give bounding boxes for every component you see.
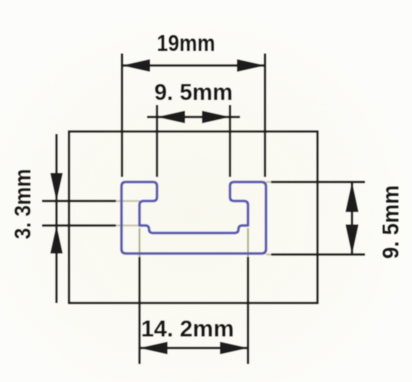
faint extension line continuation through wall (lower, y=225.5): [116, 225, 140, 227]
faint extension line continuation through base (right, x=248): [247, 228, 249, 257]
14.2mm cavity width dimension: left arrowhead: [140, 342, 168, 354]
9.5mm slot opening dimension: dimension line with tails: [147, 116, 240, 118]
9.5mm slot opening dimension: right extension line: [229, 105, 231, 177]
14.2mm cavity width dimension: right extension line: [247, 257, 249, 364]
3.3mm lip depth dimension: upper arrowhead (pointing down): [50, 173, 62, 201]
14.2mm cavity width dimension: left extension line: [138, 257, 140, 364]
svg-text:14. 2mm: 14. 2mm: [141, 315, 234, 341]
14.2mm cavity width dimension: right arrowhead: [220, 342, 248, 354]
9.5mm slot opening dimension: left arrowhead: [157, 111, 185, 123]
19mm width dimension: right arrowhead: [237, 59, 265, 71]
faint extension line continuation (top right, y=182): [266, 181, 271, 183]
19mm width dimension: left extension line: [121, 54, 123, 178]
9.5mm height dimension: top arrowhead (pointing up): [346, 182, 359, 212]
3.3mm lip depth dimension: dimension line: [55, 134, 57, 303]
9.5mm slot opening dimension: right arrowhead: [202, 111, 230, 123]
19mm width dimension: right extension line: [264, 54, 266, 178]
9.5mm height dimension: bottom arrowhead (pointing down): [346, 225, 359, 255]
T-track profile cross-section outline: [122, 182, 267, 254]
9.5mm slot opening dimension: left extension line: [156, 105, 158, 177]
svg-text:9. 5mm: 9. 5mm: [378, 185, 404, 259]
14.2mm cavity width dimension: dimension line: [140, 347, 249, 349]
svg-text:3. 3mm: 3. 3mm: [9, 169, 36, 239]
19mm width dimension: dimension line: [122, 64, 265, 66]
3.3mm lip depth dimension: lower arrowhead (pointing up): [50, 226, 62, 254]
3.3mm lip depth dimension: upper extension line: [42, 200, 116, 202]
faint extension line continuation through lip (upper, y=201): [116, 200, 140, 202]
9.5mm height dimension: top extension line: [271, 181, 365, 183]
outer bounding rectangle: [69, 132, 318, 304]
3.3mm lip depth dimension: lower extension line: [42, 224, 116, 226]
svg-text:19mm: 19mm: [157, 30, 215, 57]
9.5mm height dimension: bottom extension line: [271, 253, 365, 255]
faint extension line continuation (bottom right, y=254.5): [266, 254, 271, 256]
svg-text:9. 5mm: 9. 5mm: [154, 79, 233, 105]
faint extension line continuation through base (left, x=139.5): [139, 228, 141, 257]
9.5mm height dimension: dimension line: [351, 182, 353, 255]
19mm width dimension: left arrowhead: [122, 59, 150, 71]
